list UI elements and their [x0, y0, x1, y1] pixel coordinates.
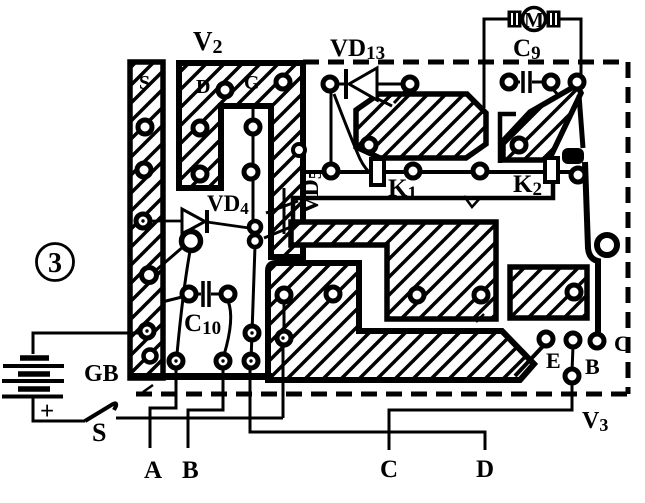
- svg-text:3: 3: [48, 248, 62, 279]
- svg-text:GB: GB: [84, 361, 119, 387]
- svg-text:B: B: [182, 457, 199, 484]
- svg-text:D: D: [476, 456, 494, 483]
- svg-text:G: G: [244, 72, 260, 94]
- svg-text:B: B: [585, 354, 600, 379]
- svg-text:E: E: [546, 348, 561, 373]
- svg-text:S: S: [92, 418, 106, 447]
- svg-text:C: C: [380, 456, 398, 483]
- svg-text:M: M: [524, 8, 544, 32]
- svg-text:D: D: [196, 76, 210, 98]
- svg-text:+: +: [40, 398, 54, 425]
- svg-text:C: C: [614, 331, 630, 356]
- svg-text:S: S: [139, 72, 150, 94]
- svg-text:A: A: [144, 457, 162, 484]
